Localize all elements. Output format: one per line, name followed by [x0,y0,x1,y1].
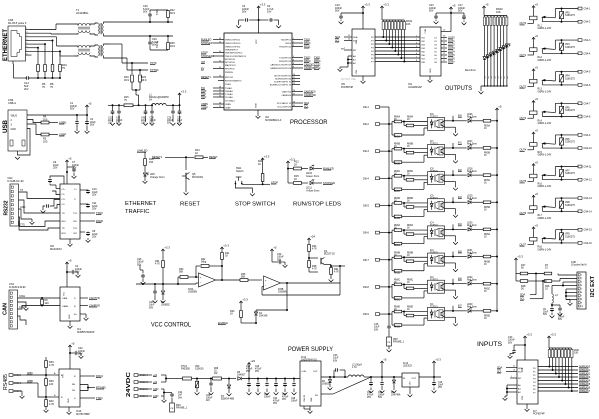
inductor L3 [552,285,563,287]
capacitor C46 [139,265,141,270]
power +3.3 out [433,361,435,365]
svg-text:4: 4 [581,285,582,287]
capacitor C40 [145,105,147,110]
wire relay RL5 NO [556,134,579,136]
power +5 RN10 [483,6,485,10]
svg-text:TCK/ALI: TCK/ALI [225,93,233,96]
resistor R39 120 [45,379,48,386]
svg-text:INPUTS: INPUTS [477,342,502,348]
wire opto 8 collector [445,310,454,312]
wire opamp1 out [216,279,241,281]
LED LD8 [505,44,508,47]
svg-text:CANH: CANH [19,306,26,309]
resistor RN8D [403,203,405,207]
svg-text:15: 15 [443,46,445,48]
terminal DI0-6 [376,231,380,234]
ground IC13 [409,387,411,394]
capacitor C3 [258,6,260,10]
wire RJ45 pin 6 [26,47,30,49]
ground D4 [392,391,397,393]
svg-text:R2O: R2O [62,233,67,235]
wire USB D+ [27,124,41,135]
svg-text:I2C EXT: I2C EXT [590,275,596,297]
wire opto 5 emitter [445,235,456,237]
ground C29 [282,261,285,263]
relay RL7 coil [530,206,538,210]
ground VR1 [195,393,200,395]
wire CAN GND [18,302,27,308]
resistor RN5D [483,201,491,204]
resistor RN6C [394,283,402,286]
svg-text:VCC CONTROL: VCC CONTROL [151,323,192,329]
capacitor C25 [149,17,151,22]
resistor RN2C [391,178,393,189]
svg-text:XTAL1: XTAL1 [225,83,232,86]
ground CN3-3 [21,391,23,396]
svg-text:TDO2/AL2: TDO2/AL2 [225,99,236,102]
LED LD7 [502,46,505,49]
wire R19 R20 join [132,89,140,91]
svg-text:+5: +5 [498,105,502,109]
ground C24 [247,393,252,395]
net TXD0 [80,212,95,214]
capacitor C26c [172,105,174,110]
svg-text:+3.3: +3.3 [364,3,370,7]
svg-text:+5: +5 [485,3,489,7]
net RXD1 [80,375,95,377]
resistor RN6B [394,256,402,259]
capacitor C8 [80,231,85,233]
resistor RN8C [403,176,405,180]
ground C25b [209,393,214,395]
wire relay RL6 NO [556,166,579,168]
resistor R46 [544,280,547,282]
diode D1 1N4148 [256,309,287,311]
resistor R15 75 [124,104,133,107]
wire CAN GND2 [18,316,27,325]
connector CN1 D-SUB-9 [9,290,18,329]
varistor VR2 [560,12,564,19]
wire input row 6 [380,259,390,261]
svg-text:LD7: LD7 [504,76,506,79]
ground opto 2 [453,161,458,163]
capacitor C6 [259,19,269,21]
power +3.3 RN11 [381,6,383,10]
connector CN9 USB-A [8,110,27,151]
resistor R21 1K [221,247,223,251]
ground C1 [75,131,80,133]
capacitor C11 [80,203,85,205]
wire R19 R20 down [136,94,139,96]
net OUT1 [441,40,447,42]
svg-text:T2I: T2I [62,228,66,230]
varistor VR4 [560,75,564,82]
power +5 relay RL2 [533,37,535,41]
wire opamp2 out [281,282,341,284]
svg-text:5: 5 [416,50,417,52]
svg-text:CN4-3: CN4-3 [584,39,592,42]
terminal DI0-8 [376,286,380,289]
resistor R40 4.7K [45,400,48,407]
ground C16b [150,123,155,125]
LED LD6 [499,48,502,51]
svg-text:DI0-1: DI0-1 [363,106,369,109]
power +5 relay RL6 [533,164,535,168]
resistor R61 4.7K [330,268,333,275]
LED LD3 [489,53,492,56]
power +24 rail [248,363,250,367]
svg-text:RUN/STOP LEDS: RUN/STOP LEDS [293,202,341,208]
terminal CN4-16 [578,242,582,245]
svg-text:RN2A: RN2A [394,244,401,247]
resistor PA3 75 [59,65,62,72]
relay RL4 coil [530,111,538,115]
ground cn8 [566,299,570,301]
relay RL6 contact [554,167,556,176]
svg-text:CN10-4: CN10-4 [140,374,149,377]
svg-text:DI0-3: DI0-3 [363,150,369,153]
svg-text:76: 76 [219,76,221,78]
resistor network RN9 element 6 [564,348,566,350]
relay RL3 coil [530,79,538,83]
svg-text:BUSREL/CTS3/PIO 33: BUSREL/CTS3/PIO 33 [270,84,292,86]
svg-text:+3.3: +3.3 [517,255,523,259]
resistor RN6D [394,310,402,313]
resistor network RN9 top bar [549,347,571,349]
svg-text:+3.3: +3.3 [550,333,556,337]
capacitor C43 [154,284,156,290]
wire Q4 emitter out [325,264,332,266]
resistor R13 [165,156,194,158]
ground IC5 [362,76,364,81]
svg-text:2: 2 [26,32,27,34]
resistor R35 56K [240,279,248,282]
wire INT IC5 [344,49,352,51]
ground C21 [110,123,115,125]
wire i2c sda to cn8 [557,274,559,276]
svg-text:OUT: OUT [412,378,417,380]
svg-text:SDI/RXD3/PIO30: SDI/RXD3/PIO30 [275,78,292,80]
resistor RN2D [391,314,393,325]
ground C37 [283,393,288,395]
capacitor C29 [271,249,273,253]
svg-text:12: 12 [443,57,445,59]
terminal CN10-4 [134,374,138,377]
svg-text:RXD2/PIO23: RXD2/PIO23 [279,61,292,63]
svg-text:I2CDTA/PIO 13: I2CDTA/PIO 13 [277,102,292,105]
wire opto 2 collector [445,147,454,149]
ground C19 [339,22,344,24]
svg-text:TDI/ALI: TDI/ALI [225,87,232,90]
transistor Q4 [320,258,322,264]
wire opto 7 collector [445,283,454,285]
svg-text:PROCESSOR: PROCESSOR [290,120,328,126]
wire input row 1 [380,123,390,125]
net TPTX+ [122,62,148,64]
svg-text:CN3-3: CN3-3 [14,390,22,393]
svg-text:SCK/RTS3/PIO 31: SCK/RTS3/PIO 31 [274,81,292,83]
resistor RN5B [483,255,491,258]
terminal CN10-1 [134,395,138,398]
wire output bit 1 [375,40,420,42]
resistor network RN11 top bar [382,19,404,21]
svg-text:CANRXD/RTS2/PIO26: CANRXD/RTS2/PIO26 [270,67,292,70]
net OUT4 [441,51,447,53]
ground D9 [161,301,166,303]
svg-text:16: 16 [219,96,221,98]
wire cn8 gnd pins [566,288,577,290]
wire input row 3 [380,177,390,179]
transformer T1 TX transformer [95,23,98,24]
wire RS232 CTS [19,217,61,227]
svg-text:71: 71 [219,61,221,63]
wire RJ45 pin 4 [26,39,30,41]
capacitor C30 [381,377,383,381]
ground CAN GND [24,308,29,310]
frame PR3 [387,337,392,346]
svg-text:CN4-13: CN4-13 [584,197,593,200]
terminal CN3-3 [9,390,13,393]
wire RS232 RTS [19,222,61,231]
capacitor C39 [370,377,372,381]
wire RX pair [110,43,122,45]
wire relay RL7 common [543,210,579,212]
svg-text:VCC: VCC [256,39,258,44]
wire TX- net [110,35,173,37]
ground C39 [369,391,374,393]
svg-text:RTS0/PIO12: RTS0/PIO12 [279,46,292,48]
relay RL5 coil [530,143,538,147]
resistor RN6B [394,147,402,150]
net CANRXD [80,305,88,307]
LED LD31 [468,255,471,258]
wire cn8 pwr [563,281,577,283]
svg-text:CANTXD/CTS2/PIO27: CANTXD/CTS2/PIO27 [270,63,292,66]
IC2 processor box [224,33,292,110]
wire input read bit 3 [538,376,578,378]
svg-text:TMR IN/INT0/PIO2: TMR IN/INT0/PIO2 [225,52,243,54]
svg-text:GND: GND [69,314,71,319]
svg-text:LD5: LD5 [498,76,500,79]
svg-text:CN4-11: CN4-11 [584,166,593,169]
svg-text:LD6: LD6 [501,76,503,79]
varistor VR8 [560,201,564,208]
capacitor C4 [66,262,68,266]
resistor R10 150 [144,152,146,158]
svg-text:LD3: LD3 [491,76,493,79]
svg-text:3: 3 [581,281,582,283]
svg-text:6: 6 [26,46,27,48]
LED LD29 [468,201,471,204]
wire relay RL2 common [543,52,579,54]
LED LD27 [468,146,471,149]
svg-text:CTS: CTS [20,224,25,227]
wire RJ45 pin 8 [26,54,30,56]
wire input row 4 [380,204,390,206]
svg-text:VSS: VSS [356,69,358,74]
capacitor C15 [387,325,391,327]
switch SW1 [236,176,242,178]
svg-text:INT1/PIO6: INT1/PIO6 [225,62,236,64]
resistor network RN11 element 4 [391,20,393,22]
ground C7 [72,176,77,178]
ground R40 [44,410,49,412]
svg-text:1: 1 [581,274,582,276]
svg-text:T2O: T2O [73,228,78,230]
svg-text:LD1: LD1 [485,76,487,79]
resistor network RN11 element 1 [382,20,384,22]
svg-text:5: 5 [581,288,582,290]
svg-text:T1O: T1O [73,213,78,215]
svg-text:+5: +5 [535,97,539,101]
svg-text:CANRX00: CANRX00 [281,94,291,97]
terminal CN4-11 [578,165,582,168]
resistor RN8D [403,312,405,316]
ground C43 [153,301,158,303]
svg-text:+5: +5 [88,102,92,106]
svg-text:RN2D: RN2D [394,327,401,329]
ground C6 [278,20,280,25]
capacitor C44 [266,378,268,380]
resistor R24 4.7K [308,238,310,242]
ground SW1 [235,184,252,193]
power +5 relay RL1 [533,6,535,10]
svg-text:+VIN: +VIN [301,371,306,373]
svg-text:RSTIN/T/WAIT/IO: RSTIN/T/WAIT/IO [225,79,242,82]
wire MAX232 C1 pins [52,191,60,195]
power +3.3 R34 [162,249,164,253]
terminal CN4-3 [578,39,582,42]
wire opto 6 emitter [445,262,456,264]
wire termination rail [29,77,60,79]
power +5 relay RL7 [533,195,535,199]
resistor network RN11 element 6 [397,20,399,22]
ground opto 3 [453,188,458,190]
ground C44 [265,393,270,395]
wire gnd join [161,388,164,390]
svg-text:CANH: CANH [62,305,69,308]
terminal CN4-13 [578,197,582,200]
capacitor C34 [275,378,277,380]
ground CN2 [31,219,33,222]
svg-text:+24: +24 [310,235,315,239]
wire opto 4 collector [445,201,454,203]
ground C30 [380,391,385,393]
svg-text:RN2D: RN2D [394,218,401,220]
svg-text:CN4-4: CN4-4 [584,52,592,55]
svg-text:TXD2/PIO22: TXD2/PIO22 [279,57,292,59]
svg-text:6: 6 [293,60,294,62]
svg-text:8: 8 [416,60,417,62]
svg-text:GND: GND [410,381,412,386]
resistor R22 49.9 [167,18,169,23]
wire LED bus drop [480,86,482,91]
power +3.3 stop [262,158,264,162]
terminal CN4-1 [578,7,582,10]
svg-text:8: 8 [26,53,27,55]
wire USB GND [18,129,31,156]
LED LD5 [496,49,499,52]
svg-text:27: 27 [293,94,295,96]
svg-text:+3.3: +3.3 [383,3,389,7]
power +3.3 R20 [240,301,242,305]
wire RS232 RX [19,200,61,213]
resistor RN8B [403,149,405,153]
resistor RN2B [391,151,393,162]
net OUT3 [441,47,447,49]
resistor network RN11 element 5 [394,20,396,22]
wire opto 4 emitter [445,208,456,210]
power +3.3 ethernet [179,93,181,97]
svg-text:GND: GND [256,103,258,108]
connector CN2 D-SUB-9 [10,184,19,226]
wire relay RL7 NO [556,197,579,199]
wire opto 3 emitter [445,181,456,183]
ground D6 [328,388,333,390]
svg-text:3: 3 [293,45,294,47]
svg-text:12: 12 [219,90,221,92]
svg-text:DI0-6: DI0-6 [363,232,369,235]
IC13 LE33 box [402,373,419,387]
svg-text:VCC: VCC [64,291,66,296]
svg-text:SDO/TXD3/PIO37: SDO/TXD3/PIO37 [274,75,292,77]
ground opto 5 [453,242,458,244]
net OUT6 [441,58,447,60]
svg-text:T1I: T1I [62,213,66,215]
svg-text:RESET: RESET [180,202,200,208]
svg-text:2: 2 [416,39,417,41]
svg-text:+5: +5 [71,342,75,346]
svg-text:CN4-14: CN4-14 [584,210,593,213]
wire input row 7 [380,286,390,288]
transistor Q5 [185,157,187,170]
svg-text:+3.3: +3.3 [260,3,266,7]
power +5 out [381,361,383,365]
capacitor C21 [112,105,114,110]
wire RJ45 pin 5 [26,43,30,45]
wire relay RL2 NO [556,39,579,41]
terminal DI0-3 [376,150,380,153]
wire RJ45 pin 7 [26,50,30,52]
wire input row 2 [380,150,390,152]
wire opto 6 collector [445,256,454,258]
svg-text:RN2B: RN2B [394,164,401,166]
svg-text:INT0/PIO8: INT0/PIO8 [225,59,236,61]
capacitor C37 [284,378,286,380]
resistor RN6A [394,120,402,123]
wire enable branch [286,283,288,310]
svg-text:DI0-8: DI0-8 [363,286,369,289]
svg-text:13: 13 [219,87,221,89]
ground C20 [435,20,437,22]
diode D7 zener [228,378,230,380]
ground C46 [142,279,144,283]
wire opto 1 emitter [445,126,456,128]
capacitor C41 [164,392,172,394]
ground processor [256,116,261,118]
wire A0 A1 A2 [348,55,352,57]
IC6 MAX232 box [60,184,80,239]
terminal CN4-6 [578,84,582,87]
resistor R26 49.9 [167,36,169,42]
wire opto 5 collector [445,228,454,230]
resistor R4 [41,121,49,124]
svg-text:25: 25 [219,67,221,69]
svg-text:OUTPUTS: OUTPUTS [445,86,472,92]
ground C8 [87,238,89,240]
svg-text:RN2A: RN2A [394,136,401,139]
wire phy rail [108,104,124,106]
